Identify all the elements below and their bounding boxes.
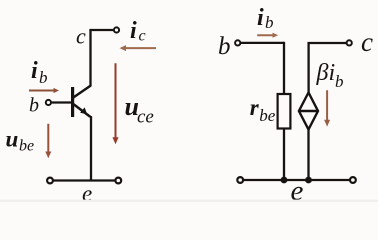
svg-text:be: be xyxy=(259,106,276,125)
svg-text:e: e xyxy=(291,175,304,203)
svg-text:c: c xyxy=(361,27,373,57)
svg-text:u: u xyxy=(6,127,19,152)
svg-text:ce: ce xyxy=(137,107,154,128)
svg-text:b: b xyxy=(335,72,344,91)
svg-text:c: c xyxy=(76,24,86,49)
svg-text:c: c xyxy=(139,28,146,45)
svg-text:i: i xyxy=(257,5,264,31)
svg-text:b: b xyxy=(218,33,231,60)
svg-text:b: b xyxy=(265,13,274,32)
svg-text:i: i xyxy=(130,18,137,44)
svg-text:i: i xyxy=(31,58,38,84)
svg-text:b: b xyxy=(29,95,39,117)
svg-text:be: be xyxy=(19,138,34,155)
svg-text:b: b xyxy=(39,68,48,87)
svg-text:βi: βi xyxy=(316,60,336,86)
